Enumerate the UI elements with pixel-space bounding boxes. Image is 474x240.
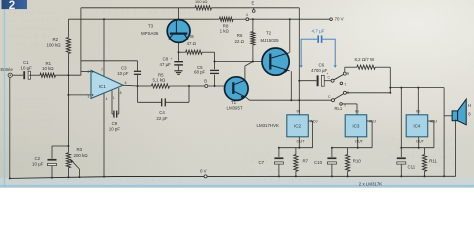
svg-text:T: T [344, 83, 346, 87]
svg-text:IC3: IC3 [352, 124, 360, 129]
svg-text:C11: C11 [408, 164, 416, 169]
svg-text:T: T [344, 104, 346, 108]
svg-text:B: B [204, 78, 207, 83]
svg-text:R7: R7 [303, 159, 309, 164]
svg-text:R1: R1 [46, 61, 52, 66]
svg-text:0 V: 0 V [200, 169, 207, 174]
svg-text:R11: R11 [429, 159, 437, 164]
svg-text:R6: R6 [237, 33, 243, 38]
svg-text:E: E [252, 0, 255, 5]
svg-text:2 x LM317K: 2 x LM317K [359, 182, 383, 187]
svg-text:la sortie: la sortie [244, 168, 297, 173]
svg-text:4: 4 [246, 13, 248, 17]
svg-text:7: 7 [101, 68, 103, 72]
svg-text:10 pF: 10 pF [109, 126, 121, 131]
svg-text:100 kΩ: 100 kΩ [195, 0, 208, 4]
svg-text:3: 3 [87, 94, 89, 98]
svg-text:R9: R9 [188, 34, 194, 39]
svg-text:OUT: OUT [297, 139, 306, 143]
svg-text:ce qui donne: ce qui donne [10, 153, 51, 158]
svg-text:68 pF: 68 pF [194, 69, 206, 74]
svg-text:47 Ω: 47 Ω [187, 41, 197, 46]
svg-text:ADJ: ADJ [310, 120, 317, 124]
svg-text:10 µF: 10 µF [21, 66, 33, 71]
svg-text:1 kΩ: 1 kΩ [220, 29, 230, 34]
svg-text:Entrée: Entrée [1, 67, 14, 72]
svg-text:RL1: RL1 [335, 106, 343, 111]
svg-text:200 kΩ: 200 kΩ [74, 153, 89, 158]
svg-text:+: + [171, 57, 173, 61]
svg-text:MJ15025: MJ15025 [261, 38, 280, 43]
svg-text:8,2 Ω/7 W: 8,2 Ω/7 W [355, 57, 375, 62]
svg-text:10 µF: 10 µF [32, 161, 44, 166]
svg-text:4: 4 [106, 97, 108, 101]
svg-text:100 kΩ: 100 kΩ [47, 43, 62, 48]
svg-text:C6: C6 [319, 63, 325, 68]
svg-text:10 pF: 10 pF [117, 71, 129, 76]
svg-text:C10: C10 [314, 160, 323, 165]
svg-text:22 Ω: 22 Ω [235, 39, 245, 44]
svg-text:IC2: IC2 [294, 124, 302, 129]
svg-text:1: 1 [113, 96, 115, 100]
svg-text:R3: R3 [77, 147, 83, 152]
svg-text:ADJ: ADJ [369, 120, 376, 124]
svg-text:LM317HVK: LM317HVK [257, 123, 280, 128]
svg-text:C1: C1 [23, 60, 29, 65]
svg-text:amplifi cateur: amplifi cateur [12, 27, 56, 32]
svg-text:IN: IN [297, 109, 301, 113]
svg-text:10 kΩ: 10 kΩ [42, 66, 54, 71]
svg-text:IN: IN [355, 109, 359, 113]
svg-text:70 V: 70 V [335, 17, 344, 22]
svg-text:T2: T2 [266, 31, 272, 36]
svg-text:6: 6 [125, 81, 127, 85]
svg-text:IC4: IC4 [413, 124, 421, 129]
svg-text:C7: C7 [259, 160, 265, 165]
svg-text:par contre: par contre [12, 127, 53, 132]
svg-text:IC1: IC1 [99, 84, 107, 89]
svg-text:5,1 kΩ: 5,1 kΩ [153, 77, 167, 82]
svg-text:H: H [468, 103, 471, 108]
svg-text:C9: C9 [112, 121, 118, 126]
svg-text:IN: IN [416, 109, 420, 113]
svg-text:ADJ: ADJ [430, 120, 437, 124]
svg-text:OUT: OUT [416, 139, 425, 143]
svg-text:alimentation: alimentation [8, 97, 49, 102]
svg-text:sur le circuit: sur le circuit [6, 119, 53, 124]
svg-text:C2: C2 [35, 156, 41, 161]
svg-text:C3: C3 [121, 66, 127, 71]
svg-text:8: 8 [120, 91, 122, 95]
svg-text:LM395T: LM395T [227, 105, 243, 110]
svg-text:T3: T3 [148, 23, 154, 28]
svg-text:2: 2 [87, 70, 89, 74]
svg-text:22 pF: 22 pF [156, 116, 168, 121]
svg-text:OUT: OUT [355, 139, 364, 143]
svg-text:47 µF: 47 µF [160, 62, 172, 67]
svg-text:MPSA06: MPSA06 [141, 31, 159, 36]
svg-text:R10: R10 [353, 159, 362, 164]
svg-text:4700 µF: 4700 µF [311, 68, 328, 73]
svg-text:C4: C4 [159, 110, 165, 115]
svg-text:R2: R2 [53, 37, 59, 42]
svg-text:4,7 µF: 4,7 µF [312, 28, 325, 33]
